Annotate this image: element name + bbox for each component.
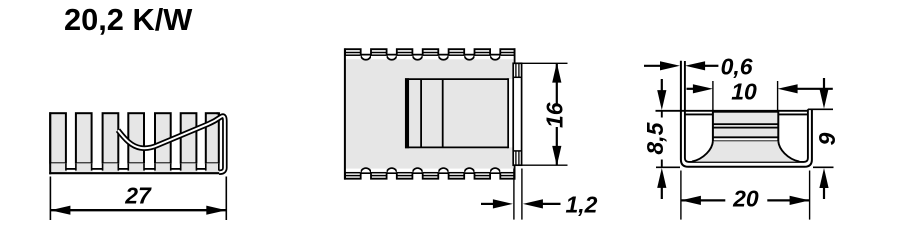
section clip top edge upper line (with 8,5 extension)	[656, 110, 808, 112]
dimension 9 top stub	[823, 78, 825, 90]
left view fin 2	[76, 113, 92, 163]
left view fin 5	[155, 113, 171, 163]
plan view bottom notch 2	[387, 173, 397, 181]
plan view top notch 2	[387, 47, 397, 55]
dimension 20 arrow right	[790, 196, 810, 205]
dimension 10 extension line left	[712, 81, 714, 110]
dimension 8,5 arrow bottom	[657, 168, 666, 188]
plan view top fin tab 3	[397, 48, 413, 59]
left view fin 7 top edge into cap	[217, 112, 221, 114]
dimension 27 extension line left	[49, 177, 51, 221]
plan view bottom notch 3	[412, 173, 422, 181]
left view fin 6	[181, 113, 197, 163]
section spring column left edge	[712, 110, 714, 142]
left view base web line in gap 3	[118, 168, 128, 170]
dimension 0,6 arrow left	[660, 61, 680, 70]
plan view top notch 6	[490, 47, 500, 55]
section spring band line 3	[713, 136, 778, 138]
section spring skirt right flare	[778, 141, 799, 161]
dimension 16 line lower segment	[556, 127, 558, 165]
plan view body	[345, 57, 515, 172]
dimension 0,6 leader right	[704, 65, 718, 67]
section channel outer contour	[681, 61, 812, 167]
plan view top notch 3	[412, 47, 422, 55]
left view base foot under fin 6	[180, 163, 198, 172]
dimension 16 arrow top	[552, 63, 561, 83]
plan view bottom fin tab 6	[475, 169, 491, 180]
svg-text:0,6: 0,6	[721, 54, 753, 80]
left view base web line in gap 5	[171, 168, 181, 170]
left view fin 3	[103, 113, 119, 163]
dimension 27 line	[50, 209, 226, 211]
left view base web line in gap 4	[144, 168, 155, 170]
dimension 1,2 extension line left	[513, 169, 515, 220]
plan view top notch 4	[438, 47, 448, 55]
dimension 20 extension line left	[680, 171, 682, 220]
plan view top notch 1	[361, 47, 371, 55]
plan view bottom fin tab 5	[449, 169, 465, 180]
dimension 10 leader left	[687, 88, 695, 90]
dimension 1,2 leader left	[481, 203, 494, 205]
plan view clip end strip fold lines top	[515, 63, 517, 77]
plan view bottom fin tab 2	[371, 169, 387, 180]
section right wall top cap with extension	[808, 108, 833, 110]
plan view top fin tab 7	[500, 48, 514, 59]
plan view clip left folded edge	[405, 78, 409, 148]
dimension 1,2 arrow left	[493, 199, 513, 208]
section spring band 2 fill	[714, 129, 777, 137]
svg-text:20,2 K/W: 20,2 K/W	[64, 2, 193, 37]
dimension 27 arrow left	[50, 206, 70, 215]
dimension 16 arrow bottom	[552, 146, 561, 166]
section spring band line 4	[713, 140, 778, 142]
svg-text:9: 9	[814, 132, 840, 145]
plan view top fin tab 5	[449, 48, 465, 59]
plan view clip right bend edge	[507, 78, 509, 148]
dimension 20 line left segment	[681, 199, 725, 201]
section spring band line 2	[713, 127, 778, 129]
plan view top fin tab 1	[345, 48, 361, 59]
plan view bottom notch 5	[464, 173, 474, 181]
svg-text:27: 27	[124, 183, 152, 209]
dimension 20 arrow left	[681, 196, 701, 205]
dimension 0,6 arrow right	[685, 61, 705, 70]
section channel inner contour	[685, 61, 808, 162]
dimension 8,5 bottom extension	[656, 166, 680, 168]
plan view bottom notch 4	[438, 173, 448, 181]
section clip top edge lower line right segment	[778, 113, 808, 115]
dimension 9 arrow top	[819, 89, 828, 109]
dimension 10 extension line right	[777, 81, 779, 110]
left view left outer edge	[49, 112, 51, 174]
plan view clip bend line 1	[420, 79, 422, 147]
svg-text:20: 20	[732, 186, 759, 212]
dimension 8,5 line upper segment	[661, 112, 663, 118]
plan view left edge	[344, 48, 346, 179]
section clip top edge lower line left segment	[685, 113, 713, 115]
left view base foot under fin 5	[154, 163, 172, 172]
dimension 1,2 extension line right	[521, 169, 523, 220]
section spring skirt fill	[692, 141, 799, 161]
left view base web line in gap 2	[92, 168, 103, 170]
left view base web line in gap 1	[66, 168, 76, 170]
plan view bottom notch 1	[361, 173, 371, 181]
plan view bottom fin tab 7	[500, 169, 514, 180]
left view fin 4	[128, 113, 144, 163]
plan view clip bottom edge	[405, 146, 508, 148]
plan view clip end strip	[513, 63, 521, 165]
plan view clip end strip fold lines bottom	[515, 151, 517, 165]
plan view clip bend line 2	[442, 79, 444, 147]
dimension 9 bottom stub	[823, 188, 825, 200]
dimension 10 arrow left	[693, 84, 713, 93]
dimension 8,5 bottom stub	[661, 188, 663, 200]
left view fin 7	[206, 113, 219, 163]
dimension 8,5 arrow top	[657, 90, 666, 110]
section clip top edge thick segment over spring	[713, 110, 778, 113]
dimension 1,2 leader right	[542, 203, 561, 205]
plan view top fin tab 6	[475, 48, 491, 59]
section spring skirt left flare	[692, 141, 713, 161]
dimension 9 arrow bottom	[819, 168, 828, 188]
left view base foot under fin 7	[205, 163, 220, 172]
left view base web line in gap 6	[196, 168, 205, 170]
plan view clip top edge	[405, 78, 508, 80]
plan view bottom fin tab 3	[397, 169, 413, 180]
plan view clip end strip step bottom	[513, 150, 521, 152]
dimension 27 arrow right	[206, 206, 226, 215]
plan view bottom fin tab 1	[345, 169, 361, 180]
plan view right edge	[514, 48, 516, 179]
dimension 16 line upper segment	[556, 63, 558, 103]
dimension 20 extension line right	[809, 171, 811, 220]
dimension 16 extension line bottom	[513, 164, 567, 166]
plan view bottom fin tab 4	[423, 169, 439, 180]
left view base foot under fin 4	[127, 163, 145, 172]
left view base bottom edge	[49, 172, 223, 174]
plan view bottom notch 6	[490, 173, 500, 181]
dimension 8,5 line lower segment	[661, 160, 663, 167]
dimension 8,5 top stub	[661, 79, 663, 92]
dimension 10 leader right	[796, 88, 833, 90]
svg-text:16: 16	[542, 102, 568, 128]
svg-text:1,2: 1,2	[566, 191, 598, 217]
left view base foot under fin 2	[75, 163, 93, 172]
plan view clip end strip step top	[513, 76, 521, 78]
plan view top notch 5	[464, 47, 474, 55]
dimension 27 extension line right	[225, 177, 227, 221]
section spring column right edge	[777, 110, 779, 142]
section spring band line 1	[713, 123, 778, 125]
svg-text:8,5: 8,5	[642, 121, 668, 154]
dimension 0,6 leader left	[644, 65, 662, 67]
dimension 10 arrow right	[778, 84, 798, 93]
plan view white zone right of clip	[509, 79, 513, 147]
dimension 1,2 arrow right	[523, 199, 543, 208]
left view base foot under fin 3	[102, 163, 120, 172]
dimension 20 line right segment	[767, 199, 809, 201]
left view fin 1	[50, 113, 66, 163]
plan view top fin tab 2	[371, 48, 387, 59]
dimension 16 extension line top	[513, 62, 567, 64]
section spring band 1 fill	[714, 113, 777, 123]
svg-text:10: 10	[731, 78, 757, 104]
left view clip spring curve wrapping over end cap (double line)	[118, 116, 225, 172]
dimension 9 bottom extension	[813, 166, 834, 168]
left view base foot under fin 1	[49, 163, 67, 172]
plan view top fin tab 4	[423, 48, 439, 59]
